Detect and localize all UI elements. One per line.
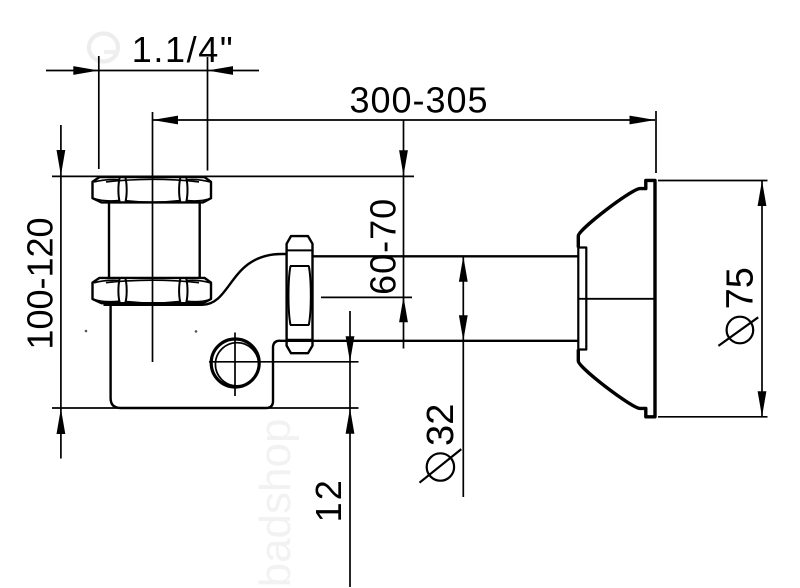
dim line 60-70 [403, 120, 405, 349]
cleanout plug circle (sketchy double stroke) [211, 339, 259, 387]
inlet pipe between nuts [108, 202, 110, 277]
arrowhead 100-120 bottom [57, 409, 66, 435]
outlet nut facet curves [288, 266, 310, 325]
stray dot left [85, 330, 88, 333]
outlet pipe top edge [313, 255, 579, 257]
reference line top (100-120 and 60-70) [52, 175, 414, 177]
arrowhead dia32 top [459, 256, 468, 282]
svg-text:75: 75 [720, 267, 762, 309]
arrowhead 1.1/4" right [208, 66, 234, 75]
svg-text:100-120: 100-120 [20, 217, 61, 349]
arrowhead 300-305 left [153, 116, 179, 125]
extension line bottom of flange [658, 416, 768, 418]
reference line bottom (100-120 and 12) [52, 407, 359, 409]
arrowhead dia75 bottom [758, 391, 767, 417]
arrowhead 60-70 top [399, 150, 408, 176]
flange collar [578, 248, 586, 350]
wall flange bell outline [578, 180, 655, 416]
arrowhead 100-120 top [57, 150, 66, 176]
arrowhead 12 bottom [346, 408, 355, 434]
crosshair vertical of cleanout [234, 333, 236, 397]
svg-text:badshop: badshop [251, 419, 300, 588]
trap body outline [111, 304, 280, 409]
flange centre seam [578, 298, 655, 300]
arrowhead 1.1/4" left [73, 66, 99, 75]
stray dot right [195, 330, 198, 333]
extension line left of 1.1/4" [98, 56, 100, 169]
line under lower nut and S-curve to outlet nut [104, 254, 287, 305]
svg-text:32: 32 [420, 404, 462, 446]
diameter symbol of 32 [427, 453, 454, 480]
dim line 1.1/4" [46, 70, 259, 72]
dim line 300-305 [153, 119, 656, 121]
extension line top of flange [658, 180, 768, 182]
arrowhead dia75 top [758, 181, 767, 207]
dim line 12 [349, 311, 351, 587]
lower nut facet edge lines [118, 279, 187, 303]
outlet nut facet lines [288, 250, 312, 339]
upper hex nut outline [93, 177, 212, 202]
dim line 100-120 [60, 125, 62, 459]
svg-text:1.1/4": 1.1/4" [132, 29, 234, 70]
lower nut facet arcs [94, 280, 211, 303]
svg-text:300-305: 300-305 [349, 80, 488, 121]
arrowhead 60-70 bottom [399, 297, 408, 323]
reference line 60-70 bottom (pipe axis) [321, 296, 412, 298]
extension line right of 300-305 [655, 111, 657, 173]
lower hex nut outline [93, 278, 212, 303]
crosshair horizontal of cleanout [209, 361, 359, 363]
dim line diameter 32 [462, 256, 464, 497]
upper nut facet arcs [94, 179, 211, 202]
outlet nut (middle) outline [287, 236, 313, 353]
arrowhead 300-305 right [630, 116, 656, 125]
svg-text:12: 12 [308, 478, 349, 522]
arrowhead 12 top [346, 336, 355, 362]
arrowhead dia32 bottom [459, 315, 468, 341]
outlet pipe bottom edge [280, 340, 578, 342]
watermark letter G top-left [89, 34, 118, 62]
centerline of inlet pipe [152, 112, 154, 362]
extension line right of 1.1/4" [207, 57, 209, 171]
svg-text:60-70: 60-70 [363, 198, 404, 295]
dim line diameter 75 [761, 181, 763, 417]
diameter symbol of 75 [727, 317, 754, 344]
upper nut facet edge lines [118, 178, 187, 202]
